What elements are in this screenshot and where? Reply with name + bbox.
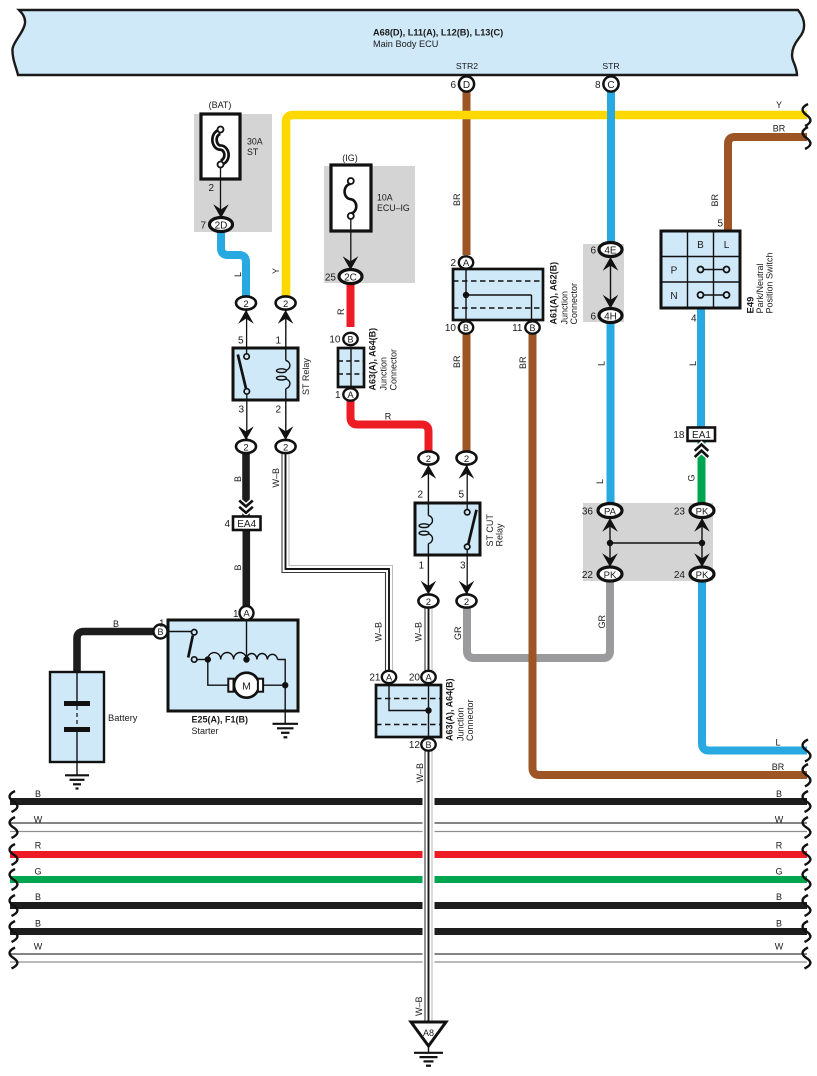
svg-text:2: 2 [283,442,288,453]
starter wire coil to motor right [278,660,286,712]
arrow down into 22 PK [602,553,618,567]
arrow up into 36 PA [602,518,618,532]
svg-text:2: 2 [283,299,288,310]
svg-text:B: B [776,919,782,929]
svg-text:Battery: Battery [108,713,138,723]
wire B battery to starter pin B [77,632,154,675]
svg-text:B: B [463,323,469,333]
svg-text:ST: ST [247,147,259,157]
svg-text:R: R [35,841,42,851]
bus wire G [10,876,807,883]
ground A8 symbol [414,1046,443,1066]
svg-text:A61(A), A62(B): A61(A), A62(B) [549,262,559,325]
svg-text:Junction: Junction [560,291,570,325]
connector oval A pin 2 (A61 top) [459,256,473,268]
svg-text:A68(D), L11(A), L12(B), L13(C): A68(D), L11(A), L12(B), L13(C) [373,28,503,38]
svg-text:2: 2 [417,490,423,501]
starter wire right brush [264,684,286,686]
junction connector A63 upper dashed rows [338,361,364,374]
svg-text:24: 24 [674,570,686,581]
gray panel behind 4E/4H junction connector [583,244,624,322]
svg-text:G: G [775,867,782,877]
svg-text:1: 1 [418,561,424,572]
junction connector 4E/4H link [610,257,612,309]
connector oval 2 (Y into ST relay pin1) [276,296,296,309]
svg-text:D: D [463,80,470,91]
break squiggle right bus R [803,844,811,865]
fuse 30A ST element [215,127,227,168]
ST CUT relay box [415,503,480,555]
connector oval A pin 1 [343,388,357,400]
svg-text:G: G [34,867,41,877]
svg-text:B: B [233,564,243,570]
svg-text:Junction: Junction [456,707,466,741]
svg-text:3: 3 [238,405,244,416]
wire L from 4H to 36 PA [607,320,615,506]
svg-text:B: B [529,323,535,333]
break squiggle left bus B1 [10,791,18,812]
svg-text:W–B: W–B [374,622,384,642]
connector oval A pin 20 [421,671,435,683]
EA4 ground point box [224,501,260,531]
svg-text:W: W [34,942,43,952]
svg-text:PK: PK [696,506,709,517]
svg-text:2: 2 [243,299,248,310]
connector oval 2 (R into ST CUT pin2) [418,451,438,464]
svg-text:Relay: Relay [495,523,505,547]
svg-text:3: 3 [460,561,466,572]
svg-text:B: B [113,619,119,629]
E49 N row contacts [698,292,730,298]
svg-text:2: 2 [426,454,431,465]
starter field coil 1 [208,653,247,660]
connector 2C oval [339,270,362,284]
starter field coil 2 [247,654,278,660]
svg-text:L: L [597,361,607,366]
svg-text:5: 5 [238,336,244,347]
bus wire B 3 [10,928,807,935]
gray panel behind 30A ST fuse [194,114,272,232]
svg-text:Starter: Starter [192,726,219,736]
break squiggle right bus W1 [803,817,811,838]
svg-text:Position Switch: Position Switch [765,252,775,313]
ST relay switch [238,311,250,440]
svg-text:ST Relay: ST Relay [301,358,311,395]
svg-text:A: A [347,390,354,401]
connector oval B pin 12 [421,738,435,750]
EA1 ground point box [673,428,715,458]
starter wire left brush [208,660,228,686]
wire W-B from junction connector 12B down to ground A8 [423,751,435,1022]
ST CUT relay coil [419,466,432,595]
svg-text:Connector: Connector [465,699,475,741]
svg-text:W–B: W–B [414,622,424,642]
svg-text:R: R [336,308,346,315]
svg-text:10A: 10A [377,193,393,203]
svg-text:Connector: Connector [389,349,399,391]
wire R from 1A to ST CUT relay connector [351,400,429,452]
break squiggle right bus G [803,869,811,890]
gray panel behind PA/PK connector block [583,503,713,581]
battery symbol [64,672,90,762]
svg-text:L: L [595,479,605,484]
connector 24 PK oval [690,567,714,581]
svg-text:21: 21 [369,673,381,684]
wire Y from yellow oval up and right off page [286,115,807,299]
svg-text:5: 5 [458,490,464,501]
svg-text:10: 10 [445,323,457,334]
wire B ST relay pin3 to EA4 [242,452,250,516]
starter motor M [234,673,259,698]
svg-text:A63(A), A64(B): A63(A), A64(B) [445,678,455,741]
svg-text:4H: 4H [604,311,617,322]
wire B EA4 to starter pin A [243,530,251,606]
svg-text:B: B [425,740,431,750]
arrow up into L oval above ST relay [238,310,254,324]
svg-text:36: 36 [582,507,594,518]
gray panel behind 10A ECU-IG fuse [324,166,415,283]
wire GR from ST CUT relay pin3 to 22 PK [467,578,610,658]
svg-text:22: 22 [582,570,594,581]
wire BR from 11B down and right off page [533,334,808,775]
PA/PK node right [699,540,705,546]
svg-text:1: 1 [233,609,239,620]
svg-text:1: 1 [275,336,281,347]
starter coil junction node left [205,656,211,662]
svg-text:W: W [34,815,43,825]
wire fuse 30A pin 2 lead [220,168,222,218]
break squiggle right bus B2 [803,895,811,916]
arrow up into R oval above ST CUT relay [421,465,437,479]
fuse 30A ST box [201,114,240,179]
battery box [50,672,104,762]
svg-text:W: W [775,942,784,952]
svg-text:8: 8 [595,80,601,91]
svg-text:30A: 30A [247,137,263,147]
park/neutral position switch E49 box [661,231,740,308]
arrow up into Y oval above ST relay [278,310,294,324]
arrow up into 23 PK [694,518,710,532]
wire L from 2D oval down to ST relay connector [221,230,246,298]
svg-text:2: 2 [426,597,431,608]
fuse 10A ECU-IG box [331,165,371,231]
break squiggle right wire Y [803,104,811,126]
svg-text:2: 2 [464,597,469,608]
svg-text:L: L [233,272,243,277]
arrow into 2C [343,256,359,270]
svg-text:W: W [775,815,784,825]
svg-text:B: B [776,892,782,902]
break squiggle right wire L [803,740,811,762]
svg-text:A8: A8 [423,1028,434,1038]
svg-text:A: A [425,673,432,684]
svg-text:B: B [776,789,782,799]
starter pin B circle [154,625,168,639]
break squiggle left bus W2 [10,948,18,969]
junction connector A63 upper divider [350,348,352,387]
break squiggle left bus W1 [10,817,18,838]
junction connector A61 dashed rows [453,281,543,308]
svg-text:10: 10 [329,335,341,346]
svg-text:STR2: STR2 [456,61,478,71]
bus wire W 2 [10,953,807,955]
svg-text:2: 2 [243,442,248,453]
wire G from EA1 to 23 PK [698,441,706,506]
svg-text:R: R [385,412,392,422]
svg-text:4: 4 [691,314,697,325]
svg-text:GR: GR [453,626,463,640]
ground A8 triangle [411,1022,446,1046]
svg-text:B: B [347,335,353,345]
break squiggle right wire BR top [803,127,811,149]
wire fuse 10A pin 25 lead [350,219,352,270]
connector oval 2 (ST relay pin3 out) [236,440,256,453]
break squiggle right bus W2 [803,948,811,969]
starter motor right node [282,682,288,688]
wire BR from right edge to E49 pin 5 [728,137,807,231]
ST relay box [233,348,298,400]
svg-text:B: B [35,919,41,929]
bus wire B 2 [10,902,807,909]
banner pin D circle [459,76,474,91]
fuse 10A element [345,178,357,219]
battery ground [65,762,89,789]
svg-text:BR: BR [518,356,528,369]
bus wire W 1 [10,822,807,824]
svg-text:11: 11 [512,323,523,334]
connector oval 2 (ST CUT pin3 out) [457,594,477,607]
starter pin A circle [240,606,254,620]
svg-text:P: P [671,266,678,277]
wire R from 2C to junction connector pin 10B [347,282,355,327]
break squiggle left bus G [10,869,18,890]
svg-text:6: 6 [590,312,596,323]
svg-text:1: 1 [335,390,341,401]
svg-text:2: 2 [464,454,469,465]
arrow down into 24 PK [694,553,710,567]
arrow down into oval under ST CUT pin3 [459,581,475,595]
arrow down into oval under ST relay pin3 [238,426,254,440]
svg-text:2: 2 [208,183,214,194]
svg-text:STR: STR [602,61,619,71]
svg-text:1: 1 [159,619,165,630]
svg-text:BR: BR [772,762,785,772]
wire L from banner pin C to 4E [607,91,615,246]
svg-text:R: R [776,841,783,851]
svg-text:EA1: EA1 [692,430,711,441]
svg-text:A: A [463,258,470,269]
svg-text:5: 5 [717,219,723,230]
arrow down into oval under ST relay pin2 [278,426,294,440]
svg-text:B: B [35,892,41,902]
connector oval B pin 11 (A61 bottom right) [525,321,539,333]
connector oval B pin 10 (A61 bottom left) [459,321,473,333]
svg-text:23: 23 [674,507,686,518]
arrow down into oval under ST CUT pin1 [421,581,437,595]
arrow up into 4E [603,257,619,271]
junction connector A63/A64 lower box [376,685,441,737]
svg-text:G: G [687,474,697,481]
junction connector A61/A62 box [453,269,543,320]
svg-text:ST CUT: ST CUT [485,514,495,547]
svg-text:Junction: Junction [379,357,389,391]
wire BR from banner pin D to junction connector A61 pin 2A [463,91,471,255]
svg-text:20: 20 [409,673,421,684]
svg-text:Y: Y [776,100,782,110]
wire L from 24 PK down and right off page [702,578,807,751]
wire W-B from ST CUT relay pin1 to junction connector 20A [425,607,432,671]
svg-text:2D: 2D [215,220,228,231]
svg-text:PK: PK [604,570,617,581]
ST CUT relay switch [465,466,477,595]
starter coil junction node center [243,656,249,662]
svg-text:B: B [697,240,704,251]
arrow into 2D [213,204,229,218]
svg-text:2C: 2C [344,272,357,283]
connector oval 2 (ST relay pin2 out) [276,440,296,453]
svg-text:25: 25 [325,273,337,284]
starter motor brush right [258,679,263,692]
svg-text:12: 12 [409,740,421,751]
svg-text:(IG): (IG) [342,153,358,163]
svg-text:4: 4 [224,519,230,530]
svg-text:C: C [607,80,614,91]
svg-text:BR: BR [710,193,720,206]
svg-text:Park/Neutral: Park/Neutral [755,263,765,313]
connector 4H oval [599,309,622,323]
svg-text:B: B [35,789,41,799]
svg-text:W–B: W–B [415,763,425,783]
connector oval 2 (L into ST relay pin5) [236,296,256,309]
starter motor brush left [228,679,233,692]
svg-text:Y: Y [271,268,281,274]
starter wire A to coil [246,620,248,660]
svg-text:BR: BR [452,355,462,368]
bus wire R [10,851,807,858]
svg-text:2: 2 [450,258,456,269]
svg-text:L: L [775,738,780,748]
ST relay coil [277,311,290,440]
svg-text:M: M [242,680,251,692]
connector 2D oval [210,218,233,232]
connector oval A pin 21 [382,671,396,683]
starter box E25 [168,620,298,711]
connector oval 2 (BR into ST CUT pin5) [457,451,477,464]
svg-text:PK: PK [696,570,709,581]
svg-text:A: A [386,673,393,684]
svg-text:GR: GR [597,614,607,628]
arrow up into BR oval above ST CUT relay [459,465,475,479]
wire W-B from ST relay pin2 to junction connector 21A [282,452,393,671]
junction connector A63 lower internal wiring [389,685,429,737]
PA/PK block internal wiring [610,518,702,568]
svg-text:L: L [688,361,698,366]
svg-text:A: A [243,609,250,620]
svg-text:L: L [724,240,730,251]
svg-text:B: B [233,476,243,482]
PA/PK node left [607,540,613,546]
svg-text:E25(A), F1(B): E25(A), F1(B) [192,715,249,725]
junction connector A63/A64 upper box [338,348,364,387]
svg-text:6: 6 [450,80,456,91]
connector 4E oval [599,243,622,257]
Main Body ECU banner [12,10,804,75]
arrow down into 4H [603,295,619,309]
connector 22 PK oval [598,567,622,581]
break squiggle left bus B2 [10,895,18,916]
svg-text:Main Body ECU: Main Body ECU [373,39,438,49]
break squiggle right wire BR bottom [803,764,811,787]
svg-text:W–B: W–B [414,996,424,1016]
svg-text:(BAT): (BAT) [209,100,232,110]
junction connector A63 lower dashed rows [376,699,441,725]
junction connector A61 internal node [463,292,469,298]
break squiggle right bus B1 [803,791,811,812]
svg-text:18: 18 [673,430,685,441]
connector 36 PA oval [598,504,622,518]
connector oval 2 (ST CUT pin1 out) [418,594,438,607]
starter ground [273,711,299,737]
connector oval B pin 10 [343,333,357,345]
bus wire B 1 [10,798,807,805]
break squiggle left bus B3 [10,921,18,942]
svg-text:BR: BR [452,193,462,206]
svg-text:6: 6 [590,246,596,257]
svg-text:Connector: Connector [569,283,579,325]
svg-text:ECU–IG: ECU–IG [377,203,410,213]
break squiggle right bus B3 [803,921,811,942]
junction connector A61 internal wiring [466,269,532,320]
connector 23 PK oval [690,504,714,518]
wire L from E49 pin 4 to EA1 [697,308,705,428]
svg-text:2: 2 [275,405,281,416]
starter switch [168,630,208,663]
svg-text:W–B: W–B [271,468,281,488]
banner pin C circle [603,76,618,91]
svg-text:A63(A), A64(B): A63(A), A64(B) [368,328,378,391]
E49 grid lines [661,231,740,308]
junction connector A63 lower internal node [425,707,431,713]
wire BR from 10B to ST CUT relay connector [463,334,471,452]
svg-text:4E: 4E [604,245,617,256]
E49 P row contacts [698,267,730,273]
svg-text:PA: PA [604,506,617,517]
svg-text:7: 7 [200,221,206,232]
svg-text:BR: BR [773,124,786,134]
break squiggle left bus R [10,844,18,865]
svg-text:N: N [670,291,677,302]
svg-text:EA4: EA4 [237,519,256,530]
